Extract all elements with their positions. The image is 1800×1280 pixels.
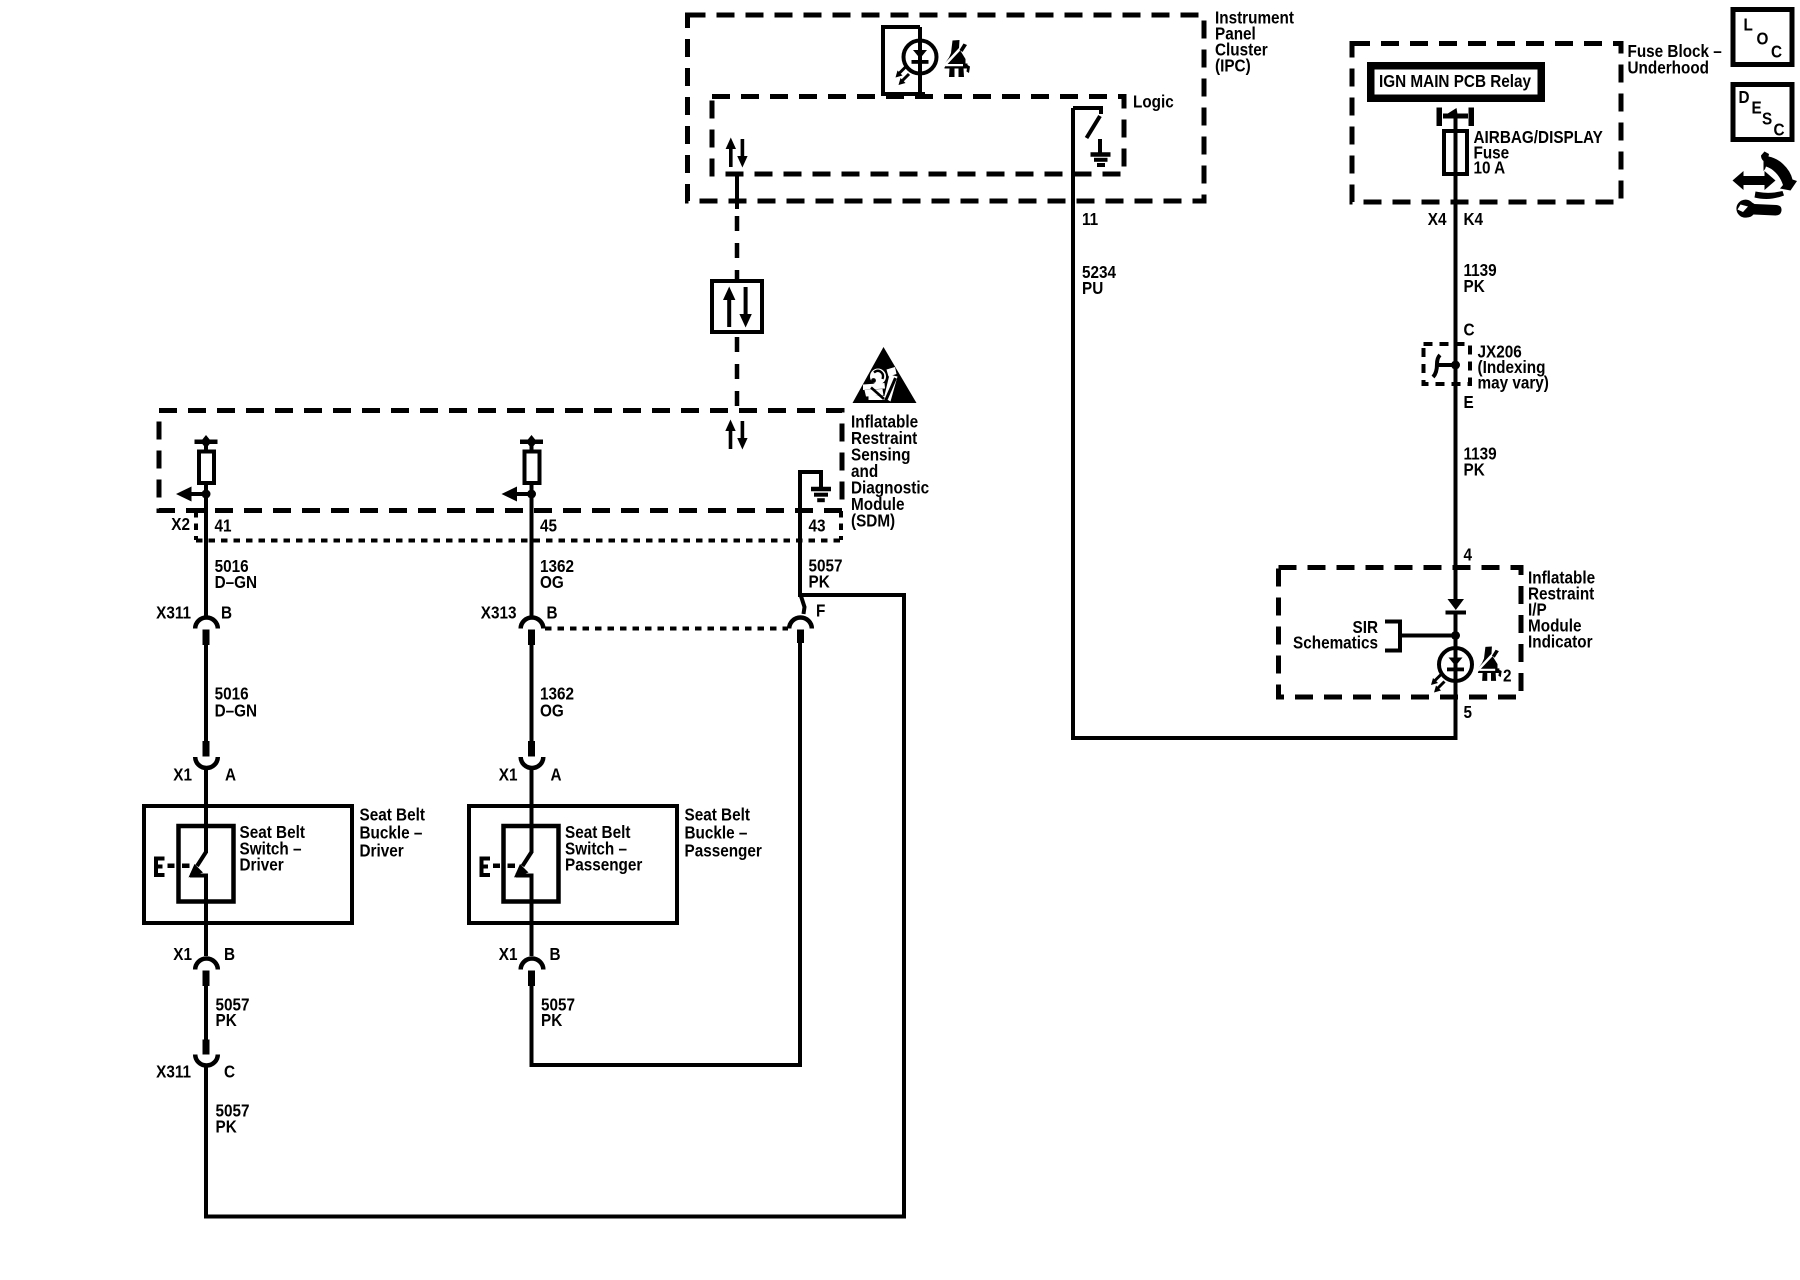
mechanical link E (passenger) [482,859,516,876]
wire through IPC indicator [918,27,922,94]
IPC seat belt indicator lamp bracket [883,27,925,94]
serial data arrows in logic box [726,138,748,168]
svg-text:C: C [1771,41,1782,61]
wire: IPC to SDM link (dashed upper) [735,216,740,281]
wire: passenger return run to node F [530,643,801,1065]
SDM label [851,411,929,530]
wire label 5016 D-GN (lower) [215,683,257,720]
SIR Schematics reference bracket [1385,622,1452,651]
svg-text:L: L [1744,14,1753,34]
ground symbol (logic) [1091,139,1111,165]
junction node (SIR tap) [1451,631,1460,640]
svg-text:B: B [547,602,558,622]
wire: bottom horizontal 5234 PU run [1071,736,1456,740]
seat belt fastened icon (IPC) [943,40,971,77]
wire label 1139 PK (upper) [1464,260,1497,296]
diagnostic navigation icon: curved repair arrow outline [1761,152,1797,191]
wire: bottom return run (driver to node F branch) [204,595,904,1217]
svg-text:Indicator: Indicator [1528,631,1593,651]
wire: JX206 to indicator, 1139 PK [1454,345,1458,600]
serial data arrows in box [723,287,752,328]
wire: X311 C down, 5057 PK [204,1064,208,1219]
switch label (driver) [240,822,306,875]
svg-text:Underhood: Underhood [1628,57,1710,77]
wire label 5234 PU [1082,262,1117,298]
serial data box between IPC and SDM [712,281,762,332]
connector X1 pin A (passenger) [521,741,544,768]
svg-text:X311: X311 [156,602,191,622]
buckle label (passenger) [685,804,763,860]
wire: SDM ground branch to pin 43 [798,470,802,595]
junction node (passenger measure tap) [527,490,536,499]
svg-text:10 A: 10 A [1474,157,1506,177]
instrument panel cluster (IPC) module box [688,15,1205,201]
fuse AIRBAG/DISPLAY 10A [1444,131,1467,174]
svg-text:PK: PK [216,1010,237,1030]
wire: X311 B to X1 A, 5016 D-GN [204,645,208,742]
seat belt buckle passenger box [469,806,677,923]
svg-text:X313: X313 [481,602,517,622]
svg-text:C: C [224,1061,235,1081]
inflatable restraint I/P module indicator box [1279,568,1522,698]
switch blade (driver) [189,852,207,878]
svg-text:IGN MAIN PCB Relay: IGN MAIN PCB Relay [1379,71,1532,91]
wire: SDM pin 43 branch jog into connector F [800,593,805,614]
diagnostic navigation icon: double arrow [1733,171,1776,190]
svg-text:5: 5 [1464,702,1473,722]
IGN MAIN PCB Relay label box [1367,62,1545,102]
svg-text:D–GN: D–GN [215,700,257,720]
wire: resistor to pin 41 [204,483,208,543]
svg-text:Driver: Driver [360,840,405,860]
svg-text:X2: X2 [171,514,190,534]
wire: IPC to SDM link (solid part) [735,174,739,209]
wire: switch to X1 B (driver), 5057 PK [204,876,208,957]
wire: X1 A into buckle switch (passenger) [530,767,534,853]
SIR Schematics label [1293,617,1378,653]
switch blade (passenger) [514,852,532,878]
svg-text:OG: OG [540,700,564,720]
ground symbol at SDM pin 43 [798,470,831,500]
switch contact step (driver) [190,874,208,878]
svg-text:X1: X1 [173,764,192,784]
svg-text:A: A [551,764,562,784]
wire: X1 B down, 5057 PK (passenger) [530,986,534,1067]
svg-text:OG: OG [540,572,564,592]
connector X313 pin F [789,618,812,644]
svg-text:D: D [1739,87,1750,107]
connector X1 pin A labels (driver) [173,764,236,784]
measurement arrow (passenger) [502,487,532,502]
svg-text:41: 41 [215,515,232,535]
svg-text:Passenger: Passenger [685,840,763,860]
svg-text:S: S [1762,108,1772,128]
wire label 1362 OG (upper) [540,556,574,592]
wire: link dashed lower to SDM [735,337,740,410]
svg-text:may vary): may vary) [1478,372,1549,392]
svg-text:C: C [1774,119,1785,139]
wire: SDM pin 41 to X311 B, 5016 D-GN [204,543,208,616]
IPC label [1215,7,1294,75]
seat belt switch driver inner box [179,826,234,902]
wire label 1362 OG (lower) [540,683,574,720]
svg-text:A: A [225,764,236,784]
LED emission arrows (IPC) [896,67,910,86]
connector JX206 box [1424,344,1471,384]
connector X1 pin B (driver) [195,958,218,986]
svg-text:X311: X311 [156,1061,191,1081]
svg-text:X4: X4 [1428,209,1447,229]
wire label 5057 PK (passenger) [541,994,575,1030]
svg-text:E: E [1752,97,1762,117]
passenger pretensioner sense element in SDM: shorting bar [520,435,543,449]
svg-text:43: 43 [809,515,826,535]
wire: X313 B to X1 A, 1362 OG [530,645,534,742]
wire label 5057 PK (driver upper) [216,994,250,1030]
svg-text:PK: PK [809,571,830,591]
wire: fuse down through X4/K4, 1139 PK [1454,172,1458,345]
svg-text:C: C [1464,319,1475,339]
indicator label [1528,567,1595,651]
relay output terminal symbol [1437,108,1475,127]
svg-text:D–GN: D–GN [215,572,257,592]
LED emission arrows (indicator) [1431,674,1445,693]
connector X1 pin B (passenger) [521,959,544,986]
wire: X1 B to X311 C, 5057 PK (driver) [204,986,208,1040]
svg-text:(SDM): (SDM) [851,510,895,530]
connector X1 pin B labels (passenger) [499,944,561,964]
svg-text:E: E [1464,392,1474,412]
svg-text:X1: X1 [173,944,192,964]
connector X1 pin A labels (passenger) [499,764,562,784]
svg-text:Schematics: Schematics [1293,632,1378,652]
fuse block underhood box [1352,44,1621,203]
LOC reference icon box [1733,10,1792,65]
mechanical link E (driver) [156,859,190,876]
driver pretensioner sense element in SDM: shorting bar [195,435,218,449]
buckle label (driver) [360,804,426,860]
resistor (passenger loop) in SDM [525,452,540,484]
X2 connector face row (dotted) [196,511,841,541]
resistor (driver loop) in SDM [199,452,214,484]
svg-text:B: B [221,602,232,622]
svg-text:PK: PK [1464,276,1485,296]
diode in indicator module [1446,599,1467,615]
svg-text:K4: K4 [1464,209,1484,229]
wire label 5016 D-GN (upper) [215,556,257,592]
svg-text:(IPC): (IPC) [1215,55,1251,75]
logic switch to ground in IPC [1073,106,1101,138]
svg-text:Driver: Driver [240,854,285,874]
svg-text:Passenger: Passenger [565,854,643,874]
connector X1 pin B labels (driver) [173,944,235,964]
svg-text:PK: PK [1464,459,1485,479]
wire label 5057 PK (driver lower) [216,1100,250,1136]
svg-text:PK: PK [216,1116,237,1136]
wire label 5057 PK (pin 43) [809,555,843,591]
wire: SDM pin 45 to X313 B, 1362 OG [530,543,534,616]
serial data arrows inside SDM [725,420,747,450]
JX206 terminal hook [1433,355,1460,377]
svg-text:4: 4 [1464,544,1473,564]
wire: IPC pin 11 to bottom, 5234 PU [1071,108,1075,738]
svg-text:B: B [550,944,561,964]
seat belt switch passenger inner box [504,826,559,902]
connector X311 pin B (female arc / male pin) [195,617,218,645]
connector X1 pin A (male pin / female cup) driver [195,741,218,768]
fuse label [1474,127,1603,178]
wire: X1 A into buckle switch (driver) [204,767,208,853]
connector X311 pin C labels [156,1061,235,1081]
connector X313 same-connector dotted link [545,627,788,631]
svg-text:Logic: Logic [1133,91,1174,111]
diagnostic navigation icon: wrench [1736,200,1781,218]
svg-text:B: B [224,944,235,964]
pin labels X4 K4 [1428,209,1484,229]
junction node (driver measure tap) [202,490,211,499]
wire: relay to fuse [1454,118,1458,133]
wire: switch to X1 B (passenger) [530,876,534,957]
svg-text:O: O [1757,28,1769,48]
svg-text:X1: X1 [499,944,518,964]
DESC reference icon box [1733,85,1792,140]
LED indicator (seat belt lamp) in IPC [904,41,937,74]
logic sub-box inside IPC [712,97,1124,175]
svg-text:PU: PU [1082,278,1103,298]
wire label 1139 PK (lower) [1464,443,1497,479]
wire: resistor to pin 45 [530,483,534,543]
switch contact step (passenger) [516,874,534,878]
svg-text:PK: PK [541,1010,562,1030]
measurement arrow (driver) [176,487,206,502]
wire: bar to resistor (passenger) [530,444,534,453]
switch label (passenger) [565,822,643,875]
svg-text:2: 2 [1503,665,1512,685]
wire: diode to LED and through to pin 5 [1454,614,1458,740]
seat belt icon (indicator) [1476,646,1502,680]
svg-text:F: F [816,600,825,620]
connector X311 pin C (male pin / female cup) [195,1040,218,1066]
Fuse Block label [1628,41,1722,78]
svg-text:45: 45 [540,515,557,535]
connector X313 pin B [521,618,544,645]
svg-text:11: 11 [1082,209,1098,229]
SDM module box [159,411,842,511]
SIR warning triangle icon [853,347,917,403]
LED indicator lamp in indicator module [1439,648,1472,681]
svg-text:X1: X1 [499,764,518,784]
seat belt buckle driver box [144,806,352,923]
connector X313 pin B labels [481,602,558,622]
wire: bar to resistor [204,444,208,453]
connector X311 pin B labels [156,602,232,622]
JX206 label [1478,341,1549,393]
